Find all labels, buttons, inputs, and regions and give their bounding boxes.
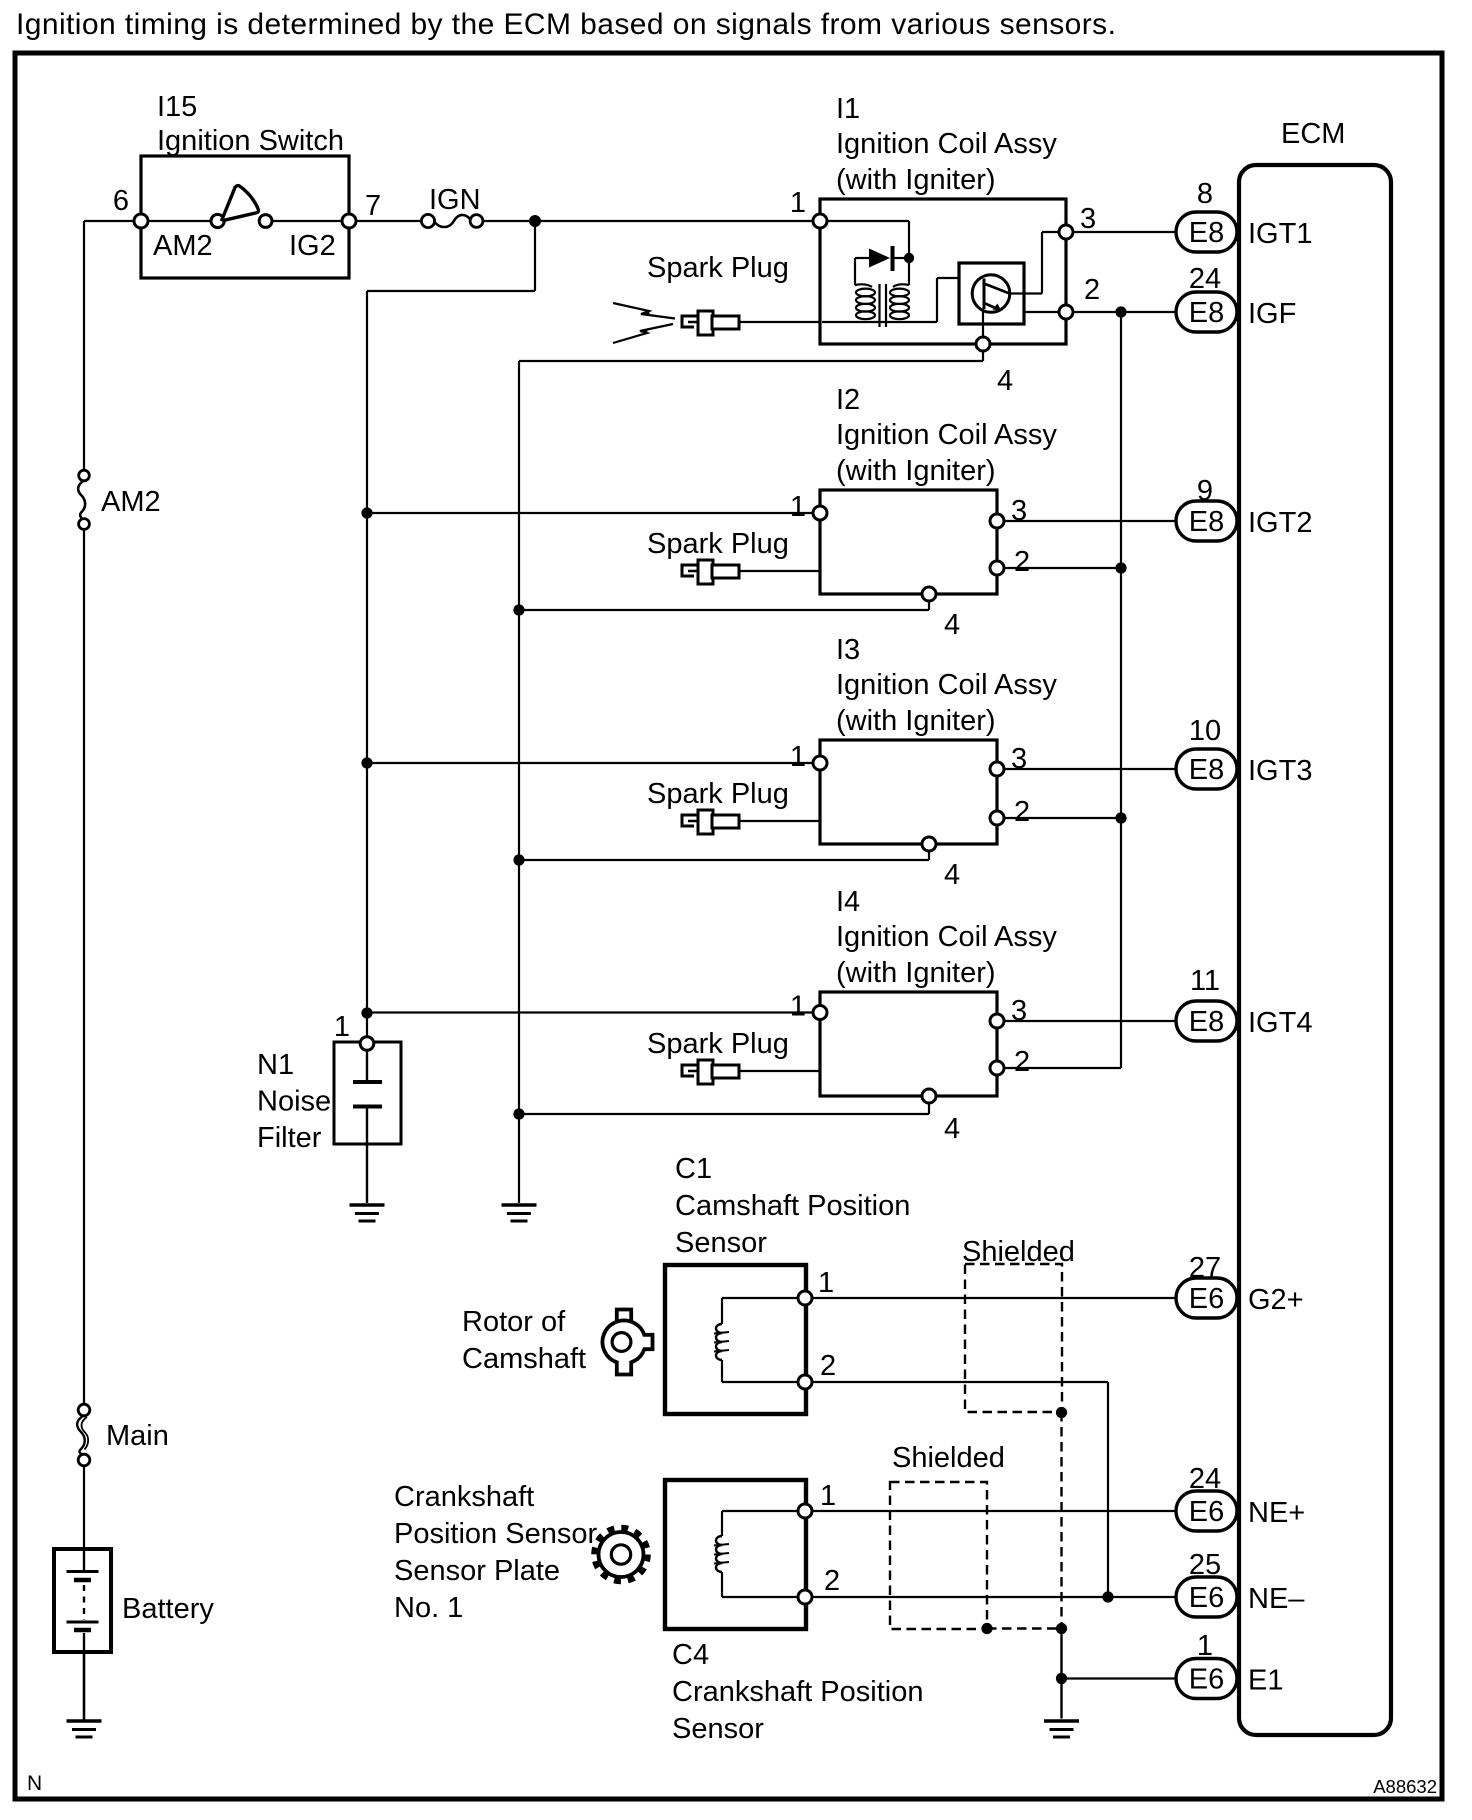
svg-text:I1: I1 — [836, 93, 860, 125]
svg-text:I15: I15 — [157, 91, 197, 123]
junction coil4 feed / noise filter — [361, 1007, 372, 1018]
svg-text:(with Igniter): (with Igniter) — [836, 164, 996, 196]
node diode cathode — [904, 253, 914, 263]
transistor Q inside I1 — [972, 275, 1010, 313]
wire battery column vertical upper — [83, 221, 85, 471]
svg-text:1: 1 — [1197, 1630, 1213, 1662]
svg-text:24: 24 — [1189, 1463, 1221, 1495]
wire to E1 — [1062, 1677, 1177, 1679]
wire feed to coil I3 pin1 — [367, 762, 813, 764]
connector E8 pin 8 (IGT1) — [1176, 212, 1237, 252]
wire transistor to pin4 — [982, 310, 984, 337]
svg-text:1: 1 — [334, 1011, 350, 1043]
svg-text:Main: Main — [106, 1420, 169, 1452]
C4 internal pickup coil — [714, 1511, 798, 1597]
svg-text:Crankshaft Position: Crankshaft Position — [672, 1676, 923, 1708]
fuse AM2 — [78, 470, 89, 529]
svg-text:(with Igniter): (with Igniter) — [836, 705, 996, 737]
svg-text:Spark Plug: Spark Plug — [647, 1028, 789, 1060]
svg-text:Sensor: Sensor — [675, 1227, 767, 1259]
svg-text:Ignition Coil Assy: Ignition Coil Assy — [836, 669, 1057, 701]
svg-text:Rotor of: Rotor of — [462, 1306, 566, 1338]
svg-text:4: 4 — [944, 609, 960, 641]
svg-text:C1: C1 — [675, 1153, 712, 1185]
svg-text:A88632: A88632 — [1373, 1776, 1437, 1797]
C1 internal pickup coil — [714, 1298, 798, 1382]
junction coil2 feed — [361, 507, 372, 518]
svg-text:N1: N1 — [257, 1049, 294, 1081]
IGF bus vertical x=1121 — [1120, 312, 1122, 1068]
svg-text:11: 11 — [1190, 965, 1220, 997]
rotor of camshaft icon — [602, 1310, 652, 1375]
ECM box — [1239, 165, 1391, 1735]
noise filter pin 1 — [360, 1037, 374, 1051]
wire coil I4 pin4 — [928, 1103, 930, 1114]
svg-text:E6: E6 — [1189, 1496, 1224, 1528]
wire C4 pin2 to NE- — [812, 1596, 1176, 1598]
I1 internal: pin1 lead — [827, 220, 909, 222]
svg-text:1: 1 — [820, 1480, 836, 1512]
node shield camshaft — [1056, 1407, 1067, 1418]
svg-text:Filter: Filter — [257, 1122, 322, 1154]
svg-text:Sensor: Sensor — [672, 1713, 764, 1745]
svg-text:10: 10 — [1189, 715, 1221, 747]
wire diode anode to primary top — [854, 258, 856, 285]
connector E6 pin 25 (NE–) — [1176, 1577, 1237, 1617]
I1 pin 1 — [813, 214, 827, 228]
svg-text:24: 24 — [1189, 263, 1221, 295]
svg-text:Spark Plug: Spark Plug — [647, 778, 789, 810]
wire switch pin6 to battery column — [84, 220, 136, 222]
wire junction down to coil feed bus — [534, 221, 536, 291]
switch contact terminals — [211, 214, 224, 227]
wire feed to coil I4 pin1 — [367, 1011, 813, 1013]
transformer core — [878, 284, 880, 327]
svg-text:I3: I3 — [836, 634, 860, 666]
camshaft position sensor C1 box — [665, 1265, 806, 1414]
wire coil I2 pin3 to IGT2 — [1004, 520, 1176, 522]
fuse IGN — [421, 214, 483, 227]
svg-text:Ignition Coil Assy: Ignition Coil Assy — [836, 921, 1057, 953]
spark bolt arrows — [613, 303, 675, 343]
svg-text:G2+: G2+ — [1248, 1284, 1304, 1316]
svg-text:3: 3 — [1080, 203, 1096, 235]
svg-text:Shielded: Shielded — [962, 1236, 1075, 1268]
I2 pin 4 — [922, 587, 936, 601]
svg-text:I4: I4 — [836, 886, 860, 918]
svg-text:25: 25 — [1189, 1549, 1221, 1581]
wire transistor emitter to pin2 — [1024, 311, 1059, 313]
svg-text:1: 1 — [790, 491, 806, 523]
svg-text:1: 1 — [818, 1267, 834, 1299]
wire coil I2 pin4 — [928, 601, 930, 610]
svg-text:E8: E8 — [1189, 506, 1224, 538]
wire feed to coil I2 pin1 — [367, 512, 813, 514]
switch pin 7 — [342, 214, 356, 228]
svg-text:IGT2: IGT2 — [1248, 507, 1312, 539]
svg-text:E8: E8 — [1189, 217, 1224, 249]
wire C1 pin1 to G2+ — [812, 1297, 1176, 1299]
svg-text:(with Igniter): (with Igniter) — [836, 957, 996, 989]
svg-text:E8: E8 — [1189, 1006, 1224, 1038]
connector E6 pin 1 (E1) — [1176, 1659, 1237, 1699]
wire Main to battery — [83, 1466, 85, 1549]
svg-text:Ignition Coil Assy: Ignition Coil Assy — [836, 128, 1057, 160]
wire pin7 to IGN fuse — [356, 220, 422, 222]
junction E1 ground — [1056, 1673, 1067, 1684]
svg-text:Shielded: Shielded — [892, 1442, 1005, 1474]
I4 pin 3 — [990, 1014, 1004, 1028]
battery — [54, 1549, 111, 1652]
svg-text:2: 2 — [1084, 274, 1100, 306]
svg-text:IGT1: IGT1 — [1248, 218, 1312, 250]
svg-text:Crankshaft: Crankshaft — [394, 1481, 534, 1513]
wire coil I3 pin4 — [928, 851, 930, 860]
svg-text:No. 1: No. 1 — [394, 1592, 463, 1624]
wire coil I3 pin3 to IGT3 — [1004, 768, 1176, 770]
svg-text:3: 3 — [1011, 995, 1027, 1027]
diode D inside I1 — [855, 246, 904, 271]
ground E1 — [1044, 1721, 1079, 1737]
C1 pin 1 — [798, 1291, 812, 1305]
wire I1 pin4 down and left — [982, 351, 984, 361]
wire battery to ground — [83, 1652, 86, 1720]
wire spark plug through windings to igniter — [822, 321, 937, 323]
junction IGN node — [529, 215, 541, 227]
svg-text:9: 9 — [1197, 475, 1213, 507]
spark plug 3 — [682, 810, 820, 834]
svg-text:NE+: NE+ — [1248, 1497, 1305, 1529]
svg-text:E8: E8 — [1189, 754, 1224, 786]
svg-text:Ignition Switch: Ignition Switch — [157, 125, 344, 157]
svg-text:3: 3 — [1011, 495, 1027, 527]
svg-text:Sensor Plate: Sensor Plate — [394, 1555, 560, 1587]
ignition switch I15 box — [141, 156, 349, 278]
sensor plate gear icon — [594, 1528, 648, 1582]
svg-text:IGN: IGN — [429, 184, 481, 216]
svg-text:AM2: AM2 — [153, 230, 213, 262]
crankshaft position sensor C4 box — [665, 1480, 806, 1629]
switch blade wedge — [222, 186, 258, 221]
spark plug 2 — [682, 560, 820, 584]
svg-text:Spark Plug: Spark Plug — [647, 528, 789, 560]
I3 pin 2 — [990, 811, 1004, 825]
wire IGN fuse to junction and coil I1 pin 1 — [483, 220, 813, 222]
wire cathode node to secondary top — [908, 262, 910, 285]
C4 pin 2 — [798, 1590, 812, 1604]
coil ground bus vertical x=519 — [518, 361, 520, 1203]
shielded box crankshaft — [890, 1482, 987, 1629]
wire C1 pin2 to NE- bus — [812, 1381, 1108, 1383]
noise filter N1 — [334, 1042, 401, 1203]
igniter transistor box — [959, 263, 1024, 324]
ignition coil I4 box — [820, 992, 997, 1096]
ignition coil I1 box — [820, 199, 1066, 344]
connector E6 pin 27 (G2+) — [1176, 1278, 1237, 1318]
svg-text:27: 27 — [1189, 1252, 1221, 1284]
coil feed bus vertical x=367 — [366, 291, 368, 1037]
I2 pin 3 — [990, 514, 1004, 528]
svg-text:Battery: Battery — [122, 1593, 214, 1625]
wire transistor base to pin3 — [1009, 292, 1042, 294]
junction C1 return on NE- — [1102, 1591, 1113, 1602]
svg-text:1: 1 — [790, 187, 806, 219]
spark plug 1 — [682, 311, 820, 335]
svg-text:2: 2 — [820, 1350, 836, 1382]
svg-text:Spark Plug: Spark Plug — [647, 252, 789, 284]
wire I1 pin2 to IGF — [1073, 311, 1176, 313]
junction coil3 feed — [361, 757, 372, 768]
svg-text:NE–: NE– — [1248, 1583, 1305, 1615]
svg-text:(with Igniter): (with Igniter) — [836, 455, 996, 487]
ignition coil I3 box — [820, 740, 997, 844]
shielded box camshaft — [965, 1264, 1062, 1412]
junction coil2 ground — [513, 604, 524, 615]
svg-text:IGT3: IGT3 — [1248, 755, 1312, 787]
svg-text:1: 1 — [790, 991, 806, 1023]
svg-text:E6: E6 — [1189, 1582, 1224, 1614]
svg-text:4: 4 — [944, 1113, 960, 1145]
I4 pin 2 — [990, 1061, 1004, 1075]
C4 pin 1 — [798, 1504, 812, 1518]
connector E8 pin 24 (IGF) — [1176, 292, 1237, 332]
svg-text:IGT4: IGT4 — [1248, 1007, 1312, 1039]
wire coil I3 pin2 to IGF bus — [1004, 817, 1121, 819]
svg-text:4: 4 — [944, 859, 960, 891]
ground noise filter — [350, 1205, 385, 1221]
connector E8 pin 10 (IGT3) — [1176, 749, 1237, 789]
svg-text:2: 2 — [1014, 546, 1030, 578]
svg-text:Ignition timing is determined: Ignition timing is determined by the ECM… — [16, 8, 1116, 41]
fusible link Main — [77, 1404, 90, 1466]
I1 pin 3 — [1059, 225, 1073, 239]
I4 pin 4 — [922, 1089, 936, 1103]
svg-text:ECM: ECM — [1281, 118, 1345, 150]
I3 pin 4 — [922, 837, 936, 851]
transformer T inside I1: primary winding — [855, 284, 875, 319]
rotor center hole — [612, 1333, 631, 1352]
node shield crankshaft — [981, 1623, 992, 1634]
junction IGF coil2 — [1115, 562, 1126, 573]
svg-text:E8: E8 — [1189, 297, 1224, 329]
svg-text:6: 6 — [113, 185, 129, 217]
svg-text:Ignition Coil Assy: Ignition Coil Assy — [836, 419, 1057, 451]
I2 pin 1 — [813, 506, 827, 520]
svg-text:Camshaft Position: Camshaft Position — [675, 1190, 910, 1222]
junction IGF coil3 — [1115, 812, 1126, 823]
shield drain dashed vertical — [1060, 1412, 1062, 1629]
svg-text:Noise: Noise — [257, 1086, 331, 1118]
ground battery — [67, 1721, 102, 1737]
junction coil3 ground — [513, 854, 524, 865]
C1 pin 2 — [798, 1375, 812, 1389]
wire C4 pin1 to NE+ — [812, 1510, 1176, 1512]
svg-text:N: N — [27, 1772, 42, 1795]
wire coil I4 pin2 to IGF bus — [1004, 1067, 1121, 1069]
I4 pin 1 — [813, 1006, 827, 1020]
transformer secondary winding — [890, 284, 909, 319]
svg-text:Camshaft: Camshaft — [462, 1343, 586, 1375]
svg-text:E6: E6 — [1189, 1283, 1224, 1315]
I1 pin 4 — [976, 337, 990, 351]
connector E6 pin 24 (NE+) — [1176, 1491, 1237, 1531]
ground coil return bus — [502, 1205, 537, 1221]
node shield drains joined — [1056, 1623, 1067, 1634]
svg-text:3: 3 — [1011, 743, 1027, 775]
wire I1 pin3 to IGT1 — [1073, 231, 1176, 233]
svg-text:2: 2 — [1014, 796, 1030, 828]
svg-text:2: 2 — [824, 1565, 840, 1597]
wire shield drain to ground — [1060, 1629, 1062, 1719]
svg-text:E6: E6 — [1189, 1664, 1224, 1696]
wire inside switch — [148, 220, 211, 222]
svg-text:2: 2 — [1014, 1046, 1030, 1078]
wire battery column vertical middle — [83, 530, 85, 1405]
svg-text:E1: E1 — [1248, 1665, 1283, 1697]
svg-text:1: 1 — [790, 741, 806, 773]
svg-text:Position Sensor: Position Sensor — [394, 1518, 597, 1550]
spark plug 4 — [682, 1060, 820, 1084]
I3 pin 3 — [990, 762, 1004, 776]
connector E8 pin 11 (IGT4) — [1176, 1001, 1237, 1041]
connector E8 pin 9 (IGT2) — [1176, 501, 1237, 541]
svg-text:C4: C4 — [672, 1639, 709, 1671]
wire coil I2 pin2 to IGF bus — [1004, 567, 1121, 569]
I2 pin 2 — [990, 561, 1004, 575]
switch pin 6 — [134, 214, 148, 228]
junction coil4 ground — [513, 1108, 524, 1119]
svg-text:7: 7 — [365, 190, 381, 222]
svg-text:IGF: IGF — [1248, 298, 1296, 330]
junction IGF — [1115, 306, 1126, 317]
ignition coil I2 box — [820, 490, 997, 594]
svg-text:8: 8 — [1197, 178, 1213, 210]
wire coil I4 pin3 to IGT4 — [1004, 1020, 1176, 1022]
svg-text:IG2: IG2 — [289, 230, 336, 262]
shield drain dashed horizontal — [987, 1627, 1062, 1629]
I3 pin 1 — [813, 756, 827, 770]
svg-text:4: 4 — [997, 365, 1013, 397]
svg-text:I2: I2 — [836, 384, 860, 416]
I1 pin 2 — [1059, 305, 1073, 319]
svg-text:AM2: AM2 — [101, 486, 161, 518]
